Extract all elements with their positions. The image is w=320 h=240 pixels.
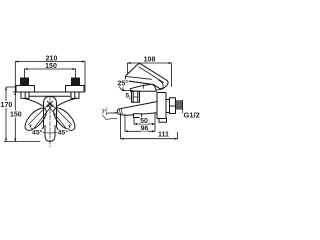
bar end block left: [21, 92, 29, 98]
svg-text:150: 150: [45, 63, 57, 70]
lever tail: [159, 80, 164, 88]
dim 210 line: [15, 60, 85, 62]
dim 96: [125, 115, 155, 133]
diverter knob: [134, 114, 142, 118]
centerline dashed: [49, 97, 51, 147]
cartridge X mark: [47, 101, 53, 107]
inlet nut left: [21, 78, 29, 86]
45 deg axis line right: [48, 103, 71, 131]
handle swing ellipse right: [50, 105, 78, 134]
svg-text:111: 111: [158, 132, 169, 139]
svg-text:G1/2: G1/2: [184, 111, 200, 120]
svg-text:5: 5: [125, 93, 129, 100]
lever blade side: [125, 64, 168, 89]
dim 210 right extension: [84, 62, 86, 93]
dim 50: [134, 113, 155, 132]
svg-text:25°: 25°: [118, 79, 129, 87]
shoulder fillet left: [24, 98, 43, 106]
shoulder fillet right: [57, 98, 76, 106]
5 tick: [129, 96, 131, 100]
wall flange: [170, 98, 176, 114]
dim 150 top line: [25, 68, 76, 78]
dim 170 vertical line: [5, 87, 17, 142]
dim 111: [121, 109, 183, 140]
escutcheon right: [66, 86, 85, 93]
connector pipe side: [132, 91, 140, 102]
bar end block right: [71, 92, 79, 98]
svg-text:108: 108: [144, 57, 156, 64]
cartridge cap side: [130, 84, 156, 91]
thread nipple: [176, 101, 183, 109]
svg-text:150: 150: [10, 112, 22, 119]
lever blade inner line: [139, 67, 164, 83]
body cylinder side: [157, 93, 166, 119]
swing arc: [30, 128, 70, 134]
handle swing ellipse left: [21, 105, 49, 134]
25 deg arc arrow: [119, 84, 125, 92]
svg-text:210: 210: [46, 55, 58, 62]
7 deg wedge: [102, 108, 117, 120]
dim 150 left vertical line: [13, 62, 19, 142]
svg-text:170: 170: [1, 102, 13, 109]
svg-text:50: 50: [140, 118, 148, 125]
svg-text:45°: 45°: [58, 129, 69, 137]
spout capsule front: [41, 97, 60, 131]
body bar: [21, 92, 79, 96]
body lower cover: [159, 119, 167, 123]
spout side: [117, 102, 157, 116]
svg-text:96: 96: [141, 126, 149, 133]
spout tip lines: [119, 109, 122, 114]
escutcheon left: [16, 86, 35, 93]
dim 108 line: [128, 62, 172, 87]
svg-text:7°: 7°: [102, 110, 107, 116]
bottom extension line: [4, 141, 40, 143]
lever pivot curves: [151, 88, 164, 90]
45 deg axis line left: [28, 103, 51, 131]
spout inner sleeve front: [45, 126, 55, 142]
svg-text:45°: 45°: [32, 129, 43, 137]
5 leader line: [123, 84, 133, 90]
inlet nut right: [72, 78, 80, 86]
